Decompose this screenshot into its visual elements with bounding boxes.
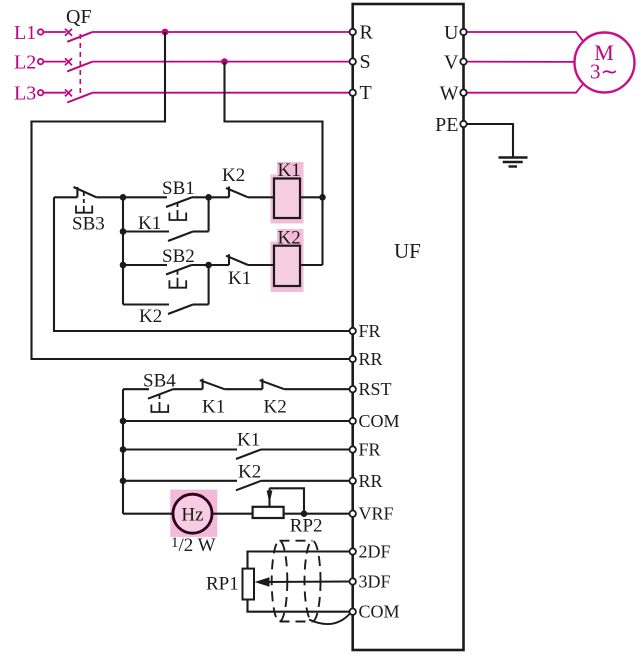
svg-text:COM: COM (359, 411, 400, 431)
svg-text:U: U (444, 22, 459, 44)
svg-text:T: T (360, 82, 372, 104)
svg-text:RP2: RP2 (290, 516, 323, 537)
svg-text:RP1: RP1 (206, 574, 239, 595)
svg-text:K1: K1 (202, 397, 225, 418)
svg-text:QF: QF (66, 6, 92, 28)
svg-text:RST: RST (359, 379, 392, 399)
svg-text:R: R (360, 22, 374, 44)
svg-text:SB3: SB3 (72, 214, 105, 235)
svg-text:3∼: 3∼ (590, 60, 618, 84)
svg-text:SB2: SB2 (162, 246, 195, 267)
svg-text:L3: L3 (14, 83, 36, 105)
svg-text:SB1: SB1 (162, 178, 195, 199)
svg-text:K1: K1 (228, 268, 251, 289)
svg-text:2DF: 2DF (359, 542, 391, 562)
svg-text:K1: K1 (278, 160, 301, 181)
svg-text:UF: UF (394, 239, 421, 263)
svg-text:COM: COM (359, 602, 400, 622)
svg-text:VRF: VRF (359, 504, 394, 524)
svg-text:FR: FR (359, 440, 381, 460)
svg-text:K2: K2 (278, 228, 301, 249)
svg-text:Hz: Hz (181, 504, 203, 525)
svg-text:RR: RR (359, 471, 383, 491)
svg-text:3DF: 3DF (359, 572, 391, 592)
svg-text:S: S (360, 51, 371, 73)
svg-text:FR: FR (359, 321, 381, 341)
svg-text:1/2 W: 1/2 W (171, 535, 216, 556)
svg-text:RR: RR (359, 349, 383, 369)
svg-text:V: V (444, 52, 459, 74)
svg-text:K2: K2 (264, 397, 287, 418)
svg-text:K2: K2 (238, 462, 261, 483)
svg-text:L1: L1 (14, 22, 36, 44)
svg-text:SB4: SB4 (143, 371, 176, 392)
svg-text:K1: K1 (138, 213, 161, 234)
svg-text:L2: L2 (14, 52, 36, 74)
svg-text:PE: PE (435, 114, 458, 136)
svg-text:K2: K2 (139, 306, 162, 327)
svg-text:W: W (440, 83, 459, 105)
svg-text:K2: K2 (222, 165, 245, 186)
svg-text:K1: K1 (237, 430, 260, 451)
